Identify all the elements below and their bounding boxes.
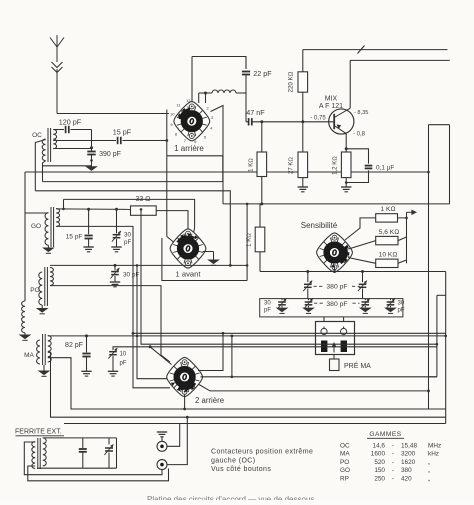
wire S4 pin A to bus	[198, 333, 223, 370]
wire right riser RE2	[449, 125, 451, 204]
resistor R1 220K	[302, 50, 304, 72]
transformer T3 PO core	[44, 267, 46, 306]
svg-text:MA: MA	[24, 352, 34, 359]
wire coil L1 left to node B	[206, 92, 213, 94]
svg-text:1 KΩ: 1 KΩ	[249, 158, 255, 172]
wire drop PO top branch bus	[137, 265, 168, 378]
svg-text:MHz: MHz	[428, 443, 441, 450]
svg-text:22 pF: 22 pF	[253, 69, 272, 78]
lamp PRE MA	[330, 359, 340, 371]
svg-text:-: -	[392, 475, 394, 482]
ground below C8	[111, 246, 121, 248]
transformer T5 left winding	[32, 442, 35, 469]
wire Q1 collector riser	[349, 60, 351, 108]
wire T1 primary top to left bus	[35, 140, 45, 191]
wire gang box to connector box	[323, 317, 325, 327]
svg-text:27 KΩ: 27 KΩ	[289, 157, 295, 174]
connector box J1	[316, 322, 355, 355]
trimmer C15 30pF	[390, 299, 392, 301]
wire 10pF feed line	[113, 347, 437, 350]
wire antenna to switch S1 pin 10	[57, 113, 169, 115]
wire T5 left top lead	[24, 442, 162, 475]
ground below C14	[359, 308, 372, 313]
svg-text:220 KΩ: 220 KΩ	[288, 71, 295, 92]
wire T5 left bottom lead	[28, 466, 169, 481]
node C junction	[260, 120, 263, 123]
svg-text:1620: 1620	[401, 459, 416, 466]
svg-text:OC: OC	[340, 443, 350, 450]
svg-text:PO: PO	[30, 287, 39, 294]
wire C3 to ground	[91, 155, 93, 167]
node A junction	[90, 146, 93, 149]
transformer T4 MA primary winding	[37, 340, 40, 364]
svg-text:10: 10	[120, 352, 127, 358]
wire 22pF drop to 47nF node	[245, 57, 247, 69]
rotary switch S1	[170, 98, 214, 144]
wire right riser V4	[445, 272, 447, 424]
svg-text:47 nF: 47 nF	[246, 108, 265, 117]
transformer T4 MA secondary winding	[48, 336, 51, 363]
trimmer C13 380pF	[308, 299, 310, 301]
transformer T2 GO primary winding	[45, 213, 48, 246]
wire T1 primary bottom to bus B3	[43, 161, 46, 182]
wire V1 top stub	[429, 124, 450, 126]
transformer T4 MA core	[42, 334, 44, 365]
svg-text:1 KΩ: 1 KΩ	[381, 206, 396, 213]
wire S4 pin C line	[199, 385, 429, 391]
svg-text:250: 250	[374, 475, 385, 482]
trimmer C9 30pF	[114, 265, 116, 270]
ground below C12	[276, 308, 289, 313]
capacitor C4 22pF	[242, 71, 250, 73]
svg-text:12: 12	[186, 98, 191, 103]
node G junction	[114, 264, 117, 267]
wire J1 to PRE MA lamp	[333, 355, 335, 360]
svg-text:380: 380	[401, 467, 412, 474]
wire top loop to C4	[192, 57, 246, 69]
resistor R7 1K	[376, 214, 398, 222]
svg-text:MIX: MIX	[325, 96, 338, 103]
svg-text:520: 520	[374, 459, 385, 466]
wire left drop to S2 pin 11	[167, 237, 174, 243]
svg-text:gauche (OC): gauche (OC)	[211, 458, 255, 465]
svg-text:5,6 KΩ: 5,6 KΩ	[379, 229, 399, 236]
wire right riser V1	[428, 125, 430, 409]
ground below R3	[298, 186, 308, 188]
svg-text:Contacteurs position extrême: Contacteurs position extrême	[211, 449, 313, 456]
transformer T3 PO primary winding	[39, 272, 42, 305]
wire resistor right ends to feed	[406, 218, 408, 263]
wire T5 tank right side	[116, 438, 118, 468]
wire branch up to bus B5	[63, 199, 65, 209]
wire S1 riser to 47nF line	[245, 93, 247, 122]
svg-text:1 arrière: 1 arrière	[174, 144, 204, 153]
connector P1 upper	[157, 441, 167, 451]
ground below C3	[85, 166, 98, 171]
wire T5 tank bottom	[37, 467, 117, 469]
transformer T1 OC primary winding	[42, 139, 45, 161]
wire T3 secondary bottom to S4	[50, 286, 170, 362]
connector J1 contact right	[341, 341, 347, 353]
wire S4 pin B to bus	[201, 376, 437, 378]
wire S1 top hole riser	[191, 57, 193, 103]
wire S3 pin3 to R9	[348, 258, 376, 264]
svg-text:15,48: 15,48	[401, 443, 417, 450]
wire R4 bypass loop	[346, 149, 368, 164]
svg-text:1600: 1600	[371, 451, 386, 458]
svg-text:- 8,35: - 8,35	[354, 110, 368, 116]
svg-text:1 avant: 1 avant	[176, 270, 202, 279]
wire Q1 emitter down	[345, 134, 347, 152]
wire T1 primary bottom ground run	[43, 165, 92, 167]
svg-text:82 pF: 82 pF	[65, 342, 83, 349]
capacitor C18	[82, 438, 84, 448]
svg-text:OC: OC	[32, 132, 42, 139]
wire L2 to ground	[24, 333, 26, 335]
wire node I to S4 pin 11	[150, 347, 171, 365]
svg-text:0,1 µF: 0,1 µF	[376, 165, 394, 172]
capacitor C16 82pF	[86, 336, 88, 352]
svg-text:15 pF: 15 pF	[66, 234, 83, 241]
ground below C15	[384, 308, 397, 313]
svg-text:- 0,75: - 0,75	[310, 115, 326, 121]
svg-text:-: -	[392, 451, 394, 458]
inductor L2 MA rod	[22, 301, 25, 333]
wire collector supply line	[350, 59, 450, 61]
wire T2 secondary top line	[56, 208, 130, 211]
resistor R4 1,2K	[341, 152, 351, 178]
svg-text:MA: MA	[340, 451, 350, 458]
rotary switch S2	[170, 229, 206, 268]
wire S2 box	[162, 238, 247, 281]
wire P2 to riser	[167, 417, 187, 464]
svg-text:GAMMES: GAMMES	[369, 431, 401, 438]
svg-text:pF: pF	[120, 361, 127, 367]
wire bus B1	[25, 171, 429, 173]
transformer T2 GO secondary winding	[56, 209, 59, 227]
svg-text:120 pF: 120 pF	[59, 118, 82, 127]
wire bus B5	[64, 199, 195, 227]
ground below T3 primary	[41, 305, 43, 308]
wire bus B3	[43, 156, 223, 182]
svg-text:15 pF: 15 pF	[113, 128, 132, 137]
wire bus B6 with feed arrow	[223, 203, 450, 205]
capacitor C1 120pF	[53, 129, 64, 131]
wire S3 pin1 to R7	[345, 218, 376, 240]
svg-text:150: 150	[374, 467, 385, 474]
capacitor C3 390pF	[87, 151, 95, 153]
ground below C16	[81, 370, 91, 372]
svg-text:-: -	[392, 459, 394, 466]
wire S1 box left	[166, 110, 168, 237]
gang box row2	[260, 299, 403, 317]
transformer T5 right winding	[43, 438, 46, 466]
svg-text:2 arrière: 2 arrière	[195, 396, 224, 405]
inductor L1	[212, 90, 236, 93]
wire S1 pin 3 riser to bus B6	[211, 106, 224, 204]
svg-text:420: 420	[401, 475, 412, 482]
svg-text:„: „	[428, 467, 430, 474]
resistor R8 5,6K	[376, 236, 398, 244]
wire S3 pin2 to R8	[349, 241, 376, 249]
svg-text:Sensibilité: Sensibilité	[301, 221, 338, 230]
trimmer C8 30pF	[116, 209, 118, 233]
capacitor C6 0,1uF	[365, 165, 373, 167]
svg-text:10: 10	[170, 112, 175, 117]
wire T2 primary top lead	[25, 212, 48, 214]
wire R5 to S2 top	[156, 211, 188, 229]
svg-text:30: 30	[264, 301, 271, 307]
svg-text:pF: pF	[124, 239, 131, 246]
wire C1 to node A	[91, 130, 93, 148]
wire S2 pin 3 to ground	[203, 251, 214, 253]
svg-text:FERRITE EXT.: FERRITE EXT.	[15, 429, 62, 436]
wire node B to S1 pin 1	[205, 93, 207, 103]
svg-text:PO: PO	[340, 459, 349, 466]
svg-text:„: „	[428, 459, 430, 466]
transistor Q1 MIX AF121	[329, 109, 354, 134]
trimmer C14 380pF	[364, 299, 366, 301]
svg-text:-: -	[392, 443, 394, 450]
node H junction	[85, 334, 88, 337]
node E junction	[87, 208, 90, 211]
svg-text:A F 121: A F 121	[319, 103, 343, 110]
svg-text:30: 30	[124, 232, 131, 239]
wire gang link row1	[314, 285, 324, 287]
svg-text:Vus côté boutons: Vus côté boutons	[211, 466, 271, 473]
trimmer C11 380pF	[362, 272, 364, 283]
svg-text:3200: 3200	[401, 451, 416, 458]
transformer T2 GO core	[50, 207, 52, 247]
ground right of S2	[207, 260, 220, 265]
wire supply top line	[303, 49, 448, 51]
svg-text:380 pF: 380 pF	[326, 301, 347, 308]
trimmer C10 380pF	[307, 272, 309, 283]
svg-text:-: -	[392, 467, 394, 474]
trimmer C12 30pF	[281, 299, 283, 301]
svg-text:30: 30	[398, 301, 405, 307]
connector J1 pin left	[321, 328, 327, 334]
rotary switch S4	[167, 357, 203, 396]
node I junction	[149, 345, 152, 348]
capacitor C7 15pF	[88, 209, 90, 234]
transformer T5 ferrite core	[37, 438, 39, 469]
rotary switch S3	[317, 233, 353, 272]
svg-text:RP: RP	[340, 475, 349, 482]
transformer T3 PO secondary winding	[50, 268, 53, 286]
wire drop GO bottom to bus	[56, 226, 170, 387]
wire bus B4	[35, 191, 230, 266]
wire S1 box bottom	[167, 155, 223, 157]
connector P2 lower	[157, 460, 167, 470]
ground below T4	[43, 365, 45, 371]
wire drop 33 line to bus	[141, 209, 437, 344]
svg-text:pF: pF	[264, 308, 271, 314]
transformer T1 OC secondary winding	[53, 130, 56, 149]
svg-text:1 KΩ: 1 KΩ	[247, 233, 253, 247]
wire T4 lead B	[48, 358, 446, 409]
resistor R3 27K	[302, 122, 304, 152]
svg-text:Platine des circuits d'acco: Platine des circuits d'accord — vue de d…	[147, 495, 314, 500]
break slash on supply line	[358, 46, 365, 54]
resistor R5 33ohm	[131, 206, 157, 215]
wire right riser V2	[436, 295, 438, 377]
svg-text:1,2 KΩ: 1,2 KΩ	[333, 156, 339, 175]
wire S3 bottom to line	[334, 267, 336, 271]
wire T4 secondary top line	[48, 335, 446, 337]
wire P1 to riser	[167, 424, 180, 447]
wire T3 secondary top line	[50, 264, 247, 266]
wire T1 secondary tap to C2	[53, 140, 116, 142]
ground below R4	[341, 186, 351, 188]
ground below T2 primary	[47, 245, 49, 247]
svg-text:GO: GO	[340, 467, 350, 474]
capacitor C5 47nF	[248, 118, 250, 125]
wire B5 drop to S2 pin 1	[194, 228, 195, 234]
resistor R9 10K	[376, 259, 398, 267]
wire T4 lead A	[48, 352, 446, 417]
arrow supply feed	[407, 211, 413, 213]
wire gang link row2	[314, 302, 323, 304]
trimmer C19	[108, 438, 110, 445]
wire C4 to coil L1	[245, 75, 247, 93]
wire T1 secondary bottom to node A	[53, 148, 91, 150]
transformer T1 OC core	[47, 128, 49, 162]
wire S4 bottom drop	[184, 394, 186, 409]
wire base line	[246, 121, 249, 123]
wire drop from PO line to bus	[246, 204, 248, 281]
ground below C9	[110, 281, 120, 283]
svg-text:„: „	[428, 475, 430, 482]
ground below C17	[108, 370, 118, 372]
svg-text:kHz: kHz	[428, 451, 439, 458]
svg-text:- 0,8: - 0,8	[353, 132, 366, 138]
svg-text:33 Ω: 33 Ω	[135, 196, 150, 203]
capacitor C2 15pF	[117, 137, 119, 144]
svg-text:pF: pF	[398, 308, 405, 314]
resistor R6 1K sens	[259, 204, 261, 227]
svg-text:390 pF: 390 pF	[99, 151, 121, 158]
connector J1 contact left	[321, 341, 327, 353]
antenna	[50, 38, 57, 48]
resistor R2 1K	[261, 122, 263, 152]
ground below C13	[302, 308, 315, 313]
svg-text:14,6: 14,6	[373, 443, 386, 450]
ground below L2	[19, 335, 32, 340]
svg-text:380 pF: 380 pF	[326, 284, 347, 291]
node D junction	[301, 120, 304, 123]
svg-text:PRÉ MA: PRÉ MA	[344, 361, 371, 370]
svg-text:GO: GO	[31, 223, 41, 230]
wire bottom bus	[64, 423, 446, 425]
node F junction	[115, 208, 118, 211]
connector J1 pin right	[341, 328, 347, 334]
connector J1 arrow	[333, 345, 335, 353]
wire bus B1 left drop to MA rod coil	[24, 172, 26, 301]
trimmer C17 10pF	[109, 351, 117, 353]
ground below C7	[83, 246, 93, 248]
ground above upper connector	[161, 437, 163, 442]
svg-text:10 KΩ: 10 KΩ	[379, 252, 398, 259]
wire sens bottom line	[260, 271, 446, 273]
wire T5 tank top	[43, 437, 117, 439]
